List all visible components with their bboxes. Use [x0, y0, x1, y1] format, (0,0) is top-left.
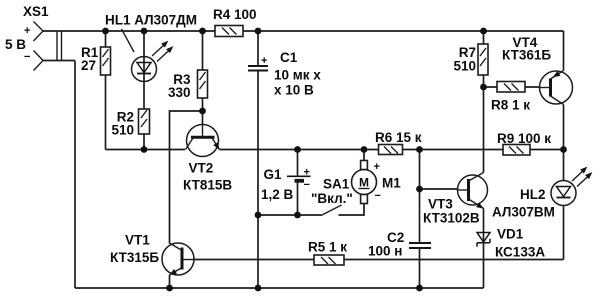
wire VT4 collector down to R9 node and HL2 anode — [563, 105, 565, 182]
wire C2 / VT3 base branch upper — [419, 150, 421, 244]
junction dot R3/VT2 base node — [199, 108, 206, 115]
svg-text:R4 100: R4 100 — [213, 7, 257, 22]
junction dot R6 right — [416, 146, 423, 153]
svg-text:R6 15 к: R6 15 к — [375, 130, 422, 145]
transistor VT3 KT3102V circle — [458, 175, 488, 205]
transistor VT3 base lead — [458, 189, 469, 191]
transistor VT1 base bar — [181, 248, 184, 270]
junction dot C2 ground — [416, 285, 423, 292]
svg-text:1,2 В: 1,2 В — [261, 187, 294, 202]
svg-text:510: 510 — [453, 59, 476, 74]
wire R8 output to VT4 base — [484, 86, 541, 88]
wire left rail — [74, 61, 76, 289]
svg-text:АЛ307ВМ: АЛ307ВМ — [492, 205, 555, 220]
battery G1 negative plate — [295, 179, 305, 183]
svg-text:КТ815В: КТ815В — [183, 178, 232, 193]
junction dot G1 top — [294, 146, 301, 153]
resistor R3 330 — [198, 70, 208, 98]
resistor R1 27 — [101, 47, 111, 75]
resistor R5 1k — [314, 255, 344, 265]
wire C1 bottom branch down to bottom rail — [257, 71, 259, 289]
LED HL1 arrows — [152, 43, 166, 56]
junction dot R3 top — [199, 28, 206, 35]
svg-text:HL2: HL2 — [520, 187, 546, 202]
wire C2 bottom lead — [419, 249, 421, 289]
junction dot R1 top — [102, 28, 109, 35]
svg-text:SA1: SA1 — [323, 177, 350, 192]
transistor VT3 emitter diagonal with arrow — [469, 199, 484, 209]
transistor VT2 base bar — [191, 136, 215, 139]
transistor VT3 base bar — [467, 179, 470, 201]
svg-text:+: + — [374, 161, 380, 173]
svg-text:5 В: 5 В — [5, 37, 26, 52]
wire R1 branch — [105, 31, 107, 150]
junction dot R9 right — [560, 146, 567, 153]
transistor VT1 collector diagonal — [170, 243, 183, 251]
transistor VT2 KT815V circle — [187, 125, 219, 157]
svg-text:−: − — [304, 179, 310, 191]
wire VT2 base lead — [202, 111, 204, 125]
transistor VT1 KT315B circle — [162, 243, 194, 275]
transistor VT2 emitter diagonal with arrow — [212, 137, 220, 149]
svg-text:VT2: VT2 — [189, 161, 214, 176]
svg-text:R8 1 к: R8 1 к — [491, 98, 530, 113]
transistor VT4 emitter diagonal with inward arrow — [551, 71, 564, 80]
LED HL1 cathode bar — [137, 73, 151, 75]
wire XS1 minus contact — [43, 60, 75, 62]
wire VT1 emitter to bottom rail — [169, 275, 171, 288]
connector XS1 mating bars — [57, 31, 62, 62]
svg-text:х 10 В: х 10 В — [274, 83, 314, 98]
svg-text:−: − — [375, 190, 381, 202]
transistor VT1 emitter diagonal with arrow — [170, 268, 183, 276]
transistor VT1 base lead — [182, 259, 194, 261]
wire R5 left to VT1 base — [183, 259, 314, 261]
LED HL1 circle — [132, 57, 157, 82]
connector XS1 plus contact — [34, 22, 44, 42]
wire switch to M1 minus — [339, 204, 365, 215]
svg-text:330: 330 — [168, 85, 191, 100]
resistor R8 1k — [497, 82, 525, 93]
svg-text:XS1: XS1 — [23, 4, 49, 19]
transistor VT3 collector diagonal — [469, 173, 484, 182]
junction dot C1 top — [255, 28, 262, 35]
wire mid rail VT2 emitter to R9 right node — [220, 149, 564, 151]
wire top rail — [43, 30, 564, 32]
connector XS1 minus contact — [34, 51, 44, 71]
junction dot C1/G1 bottom node — [255, 212, 262, 219]
resistor R7 510 — [478, 44, 488, 75]
junction dot R7/R8 node — [480, 84, 487, 91]
battery G1 positive plate — [287, 175, 311, 177]
wire G1 negative lead — [297, 181, 299, 216]
transistor VT4 base lead — [540, 87, 551, 89]
transistor VT4 collector diagonal — [551, 96, 564, 105]
svg-text:10 мк х: 10 мк х — [274, 68, 321, 83]
svg-text:+: + — [261, 55, 267, 67]
svg-text:G1: G1 — [264, 167, 283, 182]
junction dot M1 top — [361, 146, 368, 153]
wire VT3 collector line up through mid rail to R7/R8 node — [483, 31, 485, 173]
zener diode VD1 KS133A — [477, 233, 490, 247]
wire R3 branch — [202, 31, 204, 111]
LED HL2 cathode bar — [557, 197, 571, 199]
wire VD1 anode down to bottom rail — [483, 209, 485, 289]
svg-text:510: 510 — [111, 123, 134, 138]
transistor VT4 KT361B circle — [540, 71, 573, 104]
resistor R9 100k — [503, 145, 530, 156]
svg-text:27: 27 — [81, 58, 96, 73]
wire HL2 cathode down — [563, 205, 565, 260]
svg-text:+: + — [304, 167, 310, 179]
motor M1 top brush — [361, 161, 368, 170]
motor M1 bottom brush — [361, 195, 368, 204]
svg-text:КТ361Б: КТ361Б — [502, 48, 551, 63]
wire node R3/VT2 to VT1 collector — [170, 111, 203, 244]
svg-text:КТ3102В: КТ3102В — [423, 211, 480, 226]
LED HL2 circle — [551, 181, 576, 206]
svg-text:"Вкл.": "Вкл." — [311, 191, 353, 206]
svg-text:HL1 АЛ307ДМ: HL1 АЛ307ДМ — [105, 13, 197, 28]
svg-text:C1: C1 — [280, 50, 298, 65]
wire M1 plus lead — [363, 150, 365, 161]
wire R1/R2 node to VT2 collector — [106, 149, 186, 151]
wire node HL2-R5 horizontal — [344, 259, 564, 261]
svg-text:R9 100 к: R9 100 к — [497, 131, 551, 146]
resistor R2 510 — [139, 109, 150, 134]
wire G1 positive lead — [297, 150, 299, 176]
svg-text:+: + — [24, 25, 30, 37]
transistor VT2 collector diagonal — [186, 137, 194, 149]
wire battery bottom to switch — [258, 214, 321, 216]
switch SA1 lever — [321, 205, 342, 216]
wire HL1 / R2 branch — [143, 31, 145, 150]
svg-text:VT1: VT1 — [125, 233, 150, 248]
LED HL1 triangle — [137, 63, 151, 73]
svg-text:100 н: 100 н — [368, 244, 402, 259]
wire right rail from top rail down to VT4 emitter — [563, 31, 565, 71]
wire bottom rail — [75, 287, 484, 289]
svg-text:R5 1 к: R5 1 к — [308, 240, 347, 255]
LED HL2 arrows — [572, 169, 585, 181]
capacitor C2 plates — [409, 242, 431, 244]
svg-text:КС133А: КС133А — [495, 245, 545, 260]
resistor R4 100 — [215, 26, 243, 37]
svg-text:М: М — [359, 176, 369, 190]
svg-text:VT3: VT3 — [428, 197, 453, 212]
svg-text:КТ315Б: КТ315Б — [110, 250, 159, 265]
LED HL2 triangle — [557, 187, 571, 197]
HL1 label pointer — [122, 29, 135, 52]
junction dot VT1 emitter ground — [166, 285, 173, 292]
svg-text:−: − — [24, 51, 30, 63]
motor M1 circle — [352, 170, 377, 195]
junction dot HL1 top — [141, 28, 148, 35]
transistor VT4 base bar — [549, 79, 552, 97]
resistor R6 15k — [379, 145, 403, 155]
capacitor C1 plates — [248, 65, 268, 67]
wire VT3 base — [420, 188, 470, 190]
svg-text:M1: M1 — [382, 176, 401, 191]
wire C1 top lead — [257, 31, 259, 66]
junction dot R2 bottom node — [141, 146, 148, 153]
svg-text:VD1: VD1 — [497, 227, 524, 242]
junction dot G1 minus node — [294, 212, 301, 219]
junction dot C1 branch ground — [255, 285, 262, 292]
transistor VT2 base lead — [202, 125, 204, 138]
junction dot VT3 base node — [416, 186, 423, 193]
junction dot R7 top — [480, 28, 487, 35]
